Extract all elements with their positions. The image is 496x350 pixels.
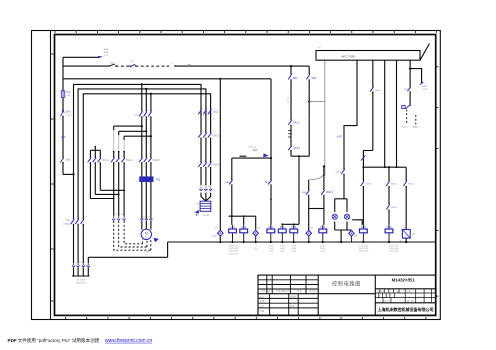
wire branch KM5 [362,167,364,225]
svg-text:1-05: 1-05 [320,245,325,247]
svg-text:1: 1 [356,88,357,90]
svg-text:KM3: KM3 [291,226,297,229]
wire link R1 to T1 [114,125,143,127]
svg-text:14 15 16 17: 14 15 16 17 [76,262,86,264]
svg-text:FU1: FU1 [66,92,71,94]
drawing title text [332,280,361,288]
wire bundle R legs [113,126,125,217]
svg-text:1: 1 [358,63,359,65]
lamp pair branch [334,199,352,230]
pushbutton SB8-1 [370,86,382,93]
svg-text:4-04 1-07: 4-04 1-07 [228,253,238,255]
svg-text:1: 1 [326,63,327,65]
svg-text:KM5: KM5 [361,226,367,229]
svg-text:M1432×/B1: M1432×/B1 [392,278,415,283]
svg-text:7-07 1-06: 7-07 1-06 [228,248,238,250]
svg-text:4-05: 4-05 [269,251,274,253]
title block grid [258,275,436,315]
svg-text:SA1: SA1 [66,159,71,162]
wire M-to-R step 3 [100,189,125,191]
svg-text:1.5kW: 1.5kW [144,252,150,254]
svg-text:KM3: KM3 [302,192,307,194]
svg-text:KM2-2: KM2-2 [126,159,134,162]
svg-text:1: 1 [386,63,387,65]
solenoid YB box [400,228,415,244]
fuse FU1 [61,91,71,98]
svg-text:KM2: KM2 [280,226,286,229]
svg-text:1-05 4-05: 1-05 4-05 [228,251,238,253]
wire ladder horizontal 216 [229,215,256,229]
wire branch KM6 [388,167,390,225]
drawing number text [392,278,415,283]
wire vertical from bus2 corner [270,79,272,225]
wire M-to-R step 1 [90,198,114,200]
wire link to KM5 node [352,220,362,225]
svg-text:6WS: 6WS [212,236,217,238]
binding margin line [50,30,52,320]
terminal bar bundle L [72,276,90,284]
motor M1 [141,221,151,254]
inner drawing frame [55,35,436,316]
fuse FU2 terminal [420,82,428,91]
bus line 1 (control supply) [63,65,309,67]
svg-text:SQ2-2: SQ2-2 [413,126,420,128]
bus line 2 [63,78,271,80]
svg-text:380V/1440: 380V/1440 [76,282,87,284]
svg-text:KA2: KA2 [241,226,246,229]
indicator diamond HL6 [349,230,357,242]
svg-text:SB5: SB5 [61,137,66,139]
svg-text:KM4-3: KM4-3 [326,192,333,194]
wire lamp branch to bus [340,230,342,243]
wire link R2 to T2 [119,130,148,132]
lamp HL5 [344,214,349,219]
svg-text:KM4: KM4 [320,226,326,229]
svg-text:6W: 6W [354,236,357,238]
wire L1 stub [63,49,109,58]
svg-text:4-06: 4-06 [292,248,297,250]
pushbutton SB6-1 [336,168,345,175]
pushbutton SB7 [404,86,411,93]
plug symbol XP [402,105,411,109]
svg-text:1-06: 1-06 [280,251,285,253]
svg-text:KM3-2: KM3-2 [153,159,161,162]
wire drop SB8 branch [363,60,372,167]
contact KM6-1 [386,203,398,211]
svg-text:1-04 7-04: 1-04 7-04 [389,245,399,247]
connector chevrons bundle 201 [199,186,212,191]
frame graduation ticks right [436,67,439,296]
terminal 2 marks on bus 1 [168,63,191,71]
svg-text:1-06 1-10: 1-06 1-10 [359,248,369,250]
svg-text:1SQ1: 1SQ1 [212,110,219,113]
svg-text:1: 1 [411,63,412,65]
gray wire from AF terminal 1 [309,60,325,179]
svg-text:SQ1-2: SQ1-2 [293,148,300,150]
wire loop L1 bottom bar [291,155,309,157]
wire bundle L leg 3 lower [82,225,84,277]
thermal overload relay FR1 [140,177,161,182]
svg-text:SB2: SB2 [293,78,298,80]
contact KM5-1 [386,180,398,188]
wire branch horizontal 158 [232,146,272,179]
wire bundle T legs [142,84,151,218]
switch SB1 on bus 1 [109,62,117,70]
contactor contacts KM3-2 [139,157,160,164]
contactor contacts KM4-1 on bundle L [63,218,84,226]
svg-text:7-SQ1-2: 7-SQ1-2 [248,146,257,148]
terminal dashes on leg 291 [288,131,291,137]
wire bundle M legs [90,150,100,198]
svg-text:2U1 2V1 2W1: 2U1 2V1 2W1 [113,214,124,216]
svg-text:1: 1 [374,63,375,65]
sheet outer border [32,31,441,320]
connector chevrons bundle R [112,214,126,220]
wire loop L1 left leg [290,66,292,156]
svg-text:2-04: 2-04 [292,245,297,247]
indicator diamond HL1 [212,228,223,239]
svg-text:7-05 1-03: 7-05 1-03 [359,251,369,253]
stray wire stub [240,155,247,157]
ground arrow at YT [195,210,199,216]
wire drop FU2 branch [409,60,422,106]
label SB5 [61,137,66,139]
svg-text:1-1.2: 1-1.2 [66,115,72,117]
switch SQ2 on bus 1 (dashed section) [129,61,136,67]
svg-text:KM1: KM1 [135,115,140,117]
wire long vertical from bus 2 [219,79,221,243]
contactor contacts KM2-2 [111,157,134,164]
wire loop L1 right leg [308,66,310,156]
svg-text:0: 0 [292,159,293,161]
svg-text:-M1 4.5kW: -M1 4.5kW [76,280,86,282]
breaker QF1 [61,110,73,117]
contactor coil KM2 [278,225,286,243]
ground arrow at motor [154,238,159,243]
company name text [378,306,434,312]
svg-text:6: 6 [400,240,401,242]
svg-text:1-04 1-05: 1-04 1-05 [359,245,369,247]
pushbutton SB3 on leg 309 [307,73,317,81]
contact KM6-2 [404,180,416,188]
wire drop mid box legs [385,60,397,167]
lamp HL4 [332,214,337,219]
svg-text:KA1-2: KA1-2 [293,122,300,125]
svg-text:1: 1 [398,63,399,65]
svg-text:7-07 1-03: 7-07 1-03 [389,251,399,253]
contactor main contacts KM1 [135,110,152,118]
wire loop L2 bottom bar [309,208,324,210]
relay coil KA2 [240,225,248,243]
svg-text:文件使用 "pdfFactory Pro" 试用版本创建: 文件使用 "pdfFactory Pro" 试用版本创建 [18,337,100,344]
svg-text:AF1.7-3Z4: AF1.7-3Z4 [342,54,356,58]
contactor coil KM5 [360,225,368,243]
svg-text:1B 36V: 1B 36V [203,215,210,217]
svg-text:1: 1 [222,201,223,203]
terminal tick labels [222,88,358,203]
svg-text:7-04: 7-04 [269,245,274,247]
dashed leads bundle R to motor [114,221,151,250]
svg-text:KM1-2: KM1-2 [102,159,110,162]
svg-text:KA1: KA1 [230,226,235,229]
contactor coil KM6 [385,225,393,243]
svg-text:SB6-1: SB6-1 [336,172,343,174]
contacts KM2-1 on bundle 201 [198,132,220,139]
terminal bus box AF1.7-3Z4 [316,44,430,65]
switch SA1 on left feeder [60,157,71,164]
relay coil KA1 [229,225,237,243]
contact KA1-2 on leg 291 [288,119,300,126]
svg-text:KM6-1: KM6-1 [391,207,398,209]
svg-text:KM6-2: KM6-2 [408,183,415,185]
wire bundle L leg 2 lower [77,225,79,277]
wire bundle M cap [90,146,100,151]
svg-text:www.fineprint.com.cn: www.fineprint.com.cn [105,338,152,344]
wire loop L2 left leg [308,180,310,209]
svg-text:4-04: 4-04 [280,245,285,247]
wire left feeder [63,57,75,175]
contact KA2-1 [225,179,232,225]
wire M-to-R step 2 [95,194,119,196]
svg-text:1-SQ4-2: 1-SQ4-2 [63,223,72,225]
contact SQ1-2 on leg 291 [288,145,300,152]
contact KM5-2 [361,180,373,188]
svg-text:6W: 6W [412,233,415,235]
connector chevrons bundle L [72,262,90,267]
svg-text:KM4-2: KM4-2 [212,163,220,166]
svg-text:7-03: 7-03 [320,251,325,253]
contactor coil KM3 [290,225,298,243]
terminal table under coil row [228,245,399,255]
svg-text:4-09: 4-09 [104,49,109,51]
svg-text:PDF: PDF [8,338,17,343]
wire U-bridge 3 [83,93,210,219]
svg-text:KM6: KM6 [387,226,393,229]
wire drop to coils KM2 KM3 [281,156,299,225]
svg-text:KM5-2: KM5-2 [365,183,372,185]
dashed links SQ2 [402,110,419,129]
contact KM3-4 on loop L2 [302,189,310,196]
svg-text:1-06: 1-06 [320,248,325,250]
svg-text:1-05 1-06: 1-05 1-06 [389,248,399,250]
wire U-bridge 2 [78,88,206,219]
wire U-bridge 1 [74,83,202,174]
svg-text:工 艺: 工 艺 [260,305,265,308]
svg-text:M: M [145,232,148,236]
svg-text:QF1: QF1 [66,112,71,114]
svg-text:4-BT: 4-BT [337,137,343,139]
svg-text:SB3: SB3 [311,78,316,80]
contactor coil KM1 [267,225,275,243]
contactor contacts KM1-2 [88,157,110,164]
svg-text:SQ2-1: SQ2-1 [402,126,409,128]
svg-text:7-04 1-05: 7-04 1-05 [228,245,238,247]
svg-text:上海机床数控机械设备有限公司: 上海机床数控机械设备有限公司 [378,306,434,312]
wire loop L2 right leg [323,165,325,208]
selector mark on jog [361,155,366,160]
svg-text:KM2-1: KM2-1 [212,134,220,137]
svg-text:7-06: 7-06 [269,248,274,250]
wire right ladder top [362,166,406,168]
connector chevrons bundle T [140,216,152,220]
frame graduation ticks top [55,30,437,33]
svg-text:SQ: SQ [131,61,134,63]
wire loop L2 drops to row [309,209,324,231]
svg-text:6-07: 6-07 [104,52,109,54]
electromagnet YT (laddered box) [196,193,211,217]
contacts 1SQ1 on bundle 201 [198,108,219,115]
contactor coil KM4 [319,225,327,243]
label 45 [287,98,289,103]
pushbutton SB2 on leg 291 [288,73,298,81]
contacts KM4-2 on bundle 201 [198,161,220,168]
svg-text:SQ4: SQ4 [253,150,258,152]
svg-text:控制电路图: 控制电路图 [332,280,361,288]
svg-text:1-03: 1-03 [292,251,297,253]
svg-text:1: 1 [305,119,306,121]
wire drop SB6 branch [337,60,357,199]
svg-text:FR1: FR1 [156,179,161,181]
pdfFactory watermark [8,337,153,344]
contact KM4-3 on loop L2 [321,189,333,196]
title block header texts [260,289,422,313]
wire link R3 to T3 [124,135,152,137]
svg-text:4-06: 4-06 [280,248,285,250]
svg-text:1 : 1: 1 : 1 [418,296,422,298]
indicator diamond HL3 [306,228,314,244]
svg-text:KM4: KM4 [66,220,71,222]
wire branch YB [405,167,407,229]
indicator diamond HL2 [253,228,261,244]
svg-text:KM1: KM1 [268,226,274,229]
svg-text:SB8-1: SB8-1 [375,90,382,92]
contact SA2 on vertical 271 [264,179,271,200]
frame graduation ticks bottom [66,317,426,320]
wire bundle 201 legs [201,109,211,185]
wire bundle L leg 1 lower [73,174,75,276]
frame graduation ticks left [51,54,54,301]
bottom return bus [87,242,436,276]
svg-text:KM5-1: KM5-1 [391,183,398,185]
